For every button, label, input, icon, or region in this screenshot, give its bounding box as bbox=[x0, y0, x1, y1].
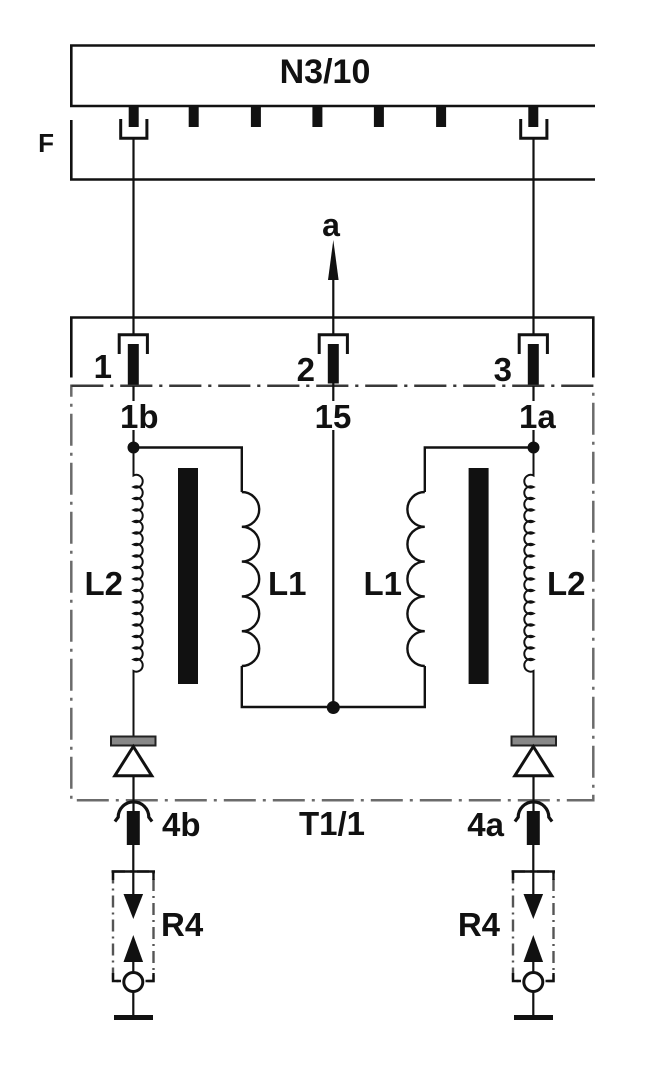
svg-text:L1: L1 bbox=[363, 565, 402, 602]
svg-text:1: 1 bbox=[94, 348, 112, 385]
svg-text:L1: L1 bbox=[268, 565, 307, 602]
svg-text:1a: 1a bbox=[519, 398, 556, 435]
svg-text:4b: 4b bbox=[162, 806, 201, 843]
svg-text:1b: 1b bbox=[120, 398, 159, 435]
svg-text:2: 2 bbox=[297, 351, 315, 388]
svg-text:R4: R4 bbox=[161, 906, 204, 943]
svg-text:T1/1: T1/1 bbox=[299, 805, 365, 842]
svg-text:R4: R4 bbox=[458, 906, 501, 943]
svg-text:4a: 4a bbox=[467, 806, 504, 843]
svg-text:F: F bbox=[38, 128, 54, 158]
svg-text:3: 3 bbox=[494, 351, 512, 388]
svg-text:N3/10: N3/10 bbox=[280, 53, 371, 91]
svg-text:a: a bbox=[322, 207, 340, 243]
svg-text:L2: L2 bbox=[547, 565, 586, 602]
svg-text:L2: L2 bbox=[84, 565, 123, 602]
svg-text:15: 15 bbox=[315, 398, 352, 435]
